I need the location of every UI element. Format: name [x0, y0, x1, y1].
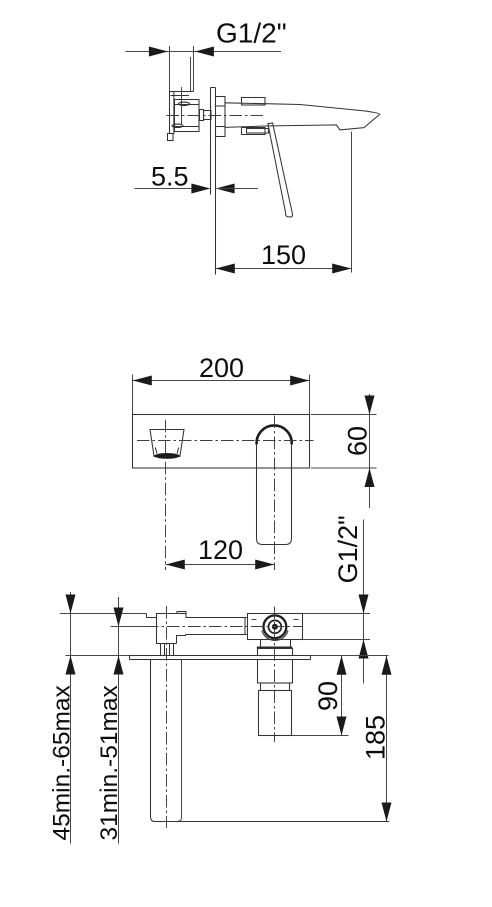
svg-text:45min.-65max: 45min.-65max	[49, 685, 76, 840]
svg-text:120: 120	[198, 535, 243, 565]
svg-text:G1/2": G1/2"	[216, 18, 287, 49]
svg-text:185: 185	[360, 715, 390, 760]
svg-text:90: 90	[313, 681, 343, 711]
svg-text:150: 150	[261, 240, 306, 270]
svg-text:200: 200	[199, 353, 244, 383]
svg-text:5.5: 5.5	[151, 162, 189, 192]
svg-text:31min.-51max: 31min.-51max	[96, 685, 123, 840]
svg-text:G1/2": G1/2"	[333, 515, 363, 583]
svg-text:60: 60	[343, 426, 373, 456]
